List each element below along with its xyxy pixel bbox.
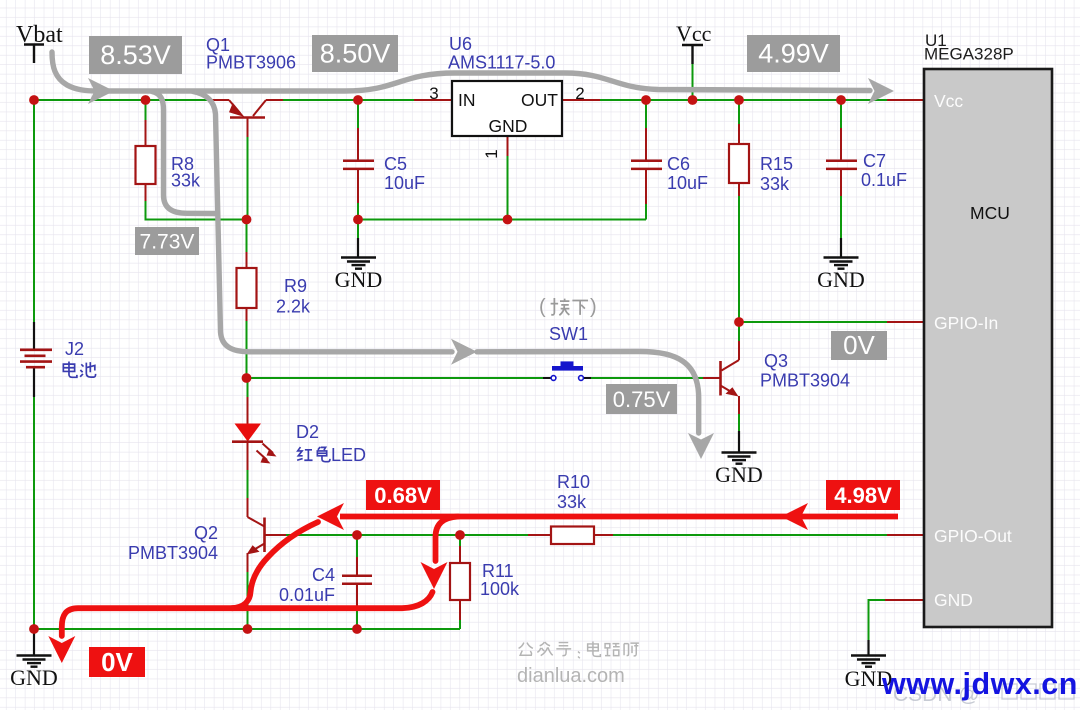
label R9 2.2k [276,276,311,317]
red arrow left 4.98V [781,503,808,530]
MCU U1 MEGA328P [885,69,1052,627]
svg-text:PMBT3904: PMBT3904 [128,543,218,563]
wire bottom GND rail [34,628,460,630]
svg-text:R10: R10 [557,472,590,492]
svg-text:7.73V: 7.73V [140,231,195,254]
svg-text:GND: GND [934,590,973,610]
svg-text:dianlua.com: dianlua.com [517,665,625,687]
red flow path main [62,517,898,637]
svg-text:GPIO-In: GPIO-In [934,313,998,333]
svg-text:GND: GND [715,462,763,487]
red arrow left 0.68V [317,503,344,530]
svg-text:Vcc: Vcc [676,21,712,46]
svg-text:SW1: SW1 [549,324,588,344]
svg-text:MCU: MCU [970,203,1010,223]
wire R9 column [246,220,248,379]
wire C6 column [645,100,647,220]
ground MCU [845,640,893,691]
wire GND rail mid [358,220,646,239]
svg-text:4.99V: 4.99V [758,39,829,69]
gray flow path main [52,52,870,433]
svg-text:R11: R11 [482,561,514,581]
wire D2 Q2 column [247,378,249,629]
hanzi hong [297,447,312,460]
svg-text:Vbat: Vbat [16,22,63,48]
wire battery column [33,100,35,629]
svg-text:GND: GND [10,665,58,690]
voltage label 4.99V [747,35,840,72]
svg-text:J2: J2 [65,339,84,359]
watermark gongzhonghao [519,642,639,659]
svg-text:3: 3 [429,84,438,103]
svg-text:www.jdwx.cn: www.jdwx.cn [881,667,1078,701]
gray arrow down Q3 [688,433,714,459]
svg-text:): ) [590,296,597,318]
voltage label 0.75V [606,384,677,414]
wire GPIO-In row [739,321,887,323]
svg-text:0V: 0V [101,647,133,677]
voltage label 8.53V [89,36,182,74]
svg-text:GND: GND [817,267,865,292]
switch SW1 [543,361,591,380]
svg-text:8.50V: 8.50V [320,39,391,69]
voltage label 8.50V [312,35,398,72]
label C7 0.1uF [861,151,907,190]
svg-text:0.75V: 0.75V [613,387,671,412]
svg-text:MEGA328P: MEGA328P [924,45,1014,64]
label C4 0.01uF [279,565,335,605]
resistor R15 [729,124,749,196]
LED D2 [232,397,277,470]
capacitor C6 [631,128,662,204]
label Q3 [760,351,850,391]
svg-text:100k: 100k [480,579,520,599]
svg-text:0.01uF: 0.01uF [279,585,335,605]
svg-text:33k: 33k [760,174,790,194]
label Q2 [128,523,218,563]
wire Q1 base column [247,137,249,220]
ground mid rail [335,238,383,292]
svg-text:2.2k: 2.2k [276,297,311,317]
label R10 33k [557,472,590,512]
regulator U6 [414,81,600,159]
svg-text:33k: 33k [557,492,587,512]
svg-text:Q2: Q2 [194,523,218,543]
gray arrow right to SW1 [451,339,477,365]
capacitor C4 [342,557,372,606]
wire Q3 collector emitter [738,322,740,431]
gray arrow right into Vcc pin [868,78,894,104]
svg-text:10uF: 10uF [667,173,708,193]
voltage label 7.73V [135,227,199,255]
resistor R11 [450,546,470,620]
gray arrow right near Vbat [88,78,114,104]
svg-text:D2: D2 [296,422,319,442]
wire R11 column [459,535,461,629]
capacitor C7 [826,128,857,196]
wire R8 column [145,100,147,220]
label U6 [448,34,555,73]
svg-text:C6: C6 [667,154,690,174]
label C6 10uF [667,154,708,193]
hanzi xia [572,301,588,315]
wire U6 GND pin column [507,156,509,220]
svg-text:C5: C5 [384,154,407,174]
transistor Q3 [703,341,739,414]
svg-text:LED: LED [331,445,366,465]
label J2 battery [63,339,95,377]
ground Q3 [715,431,763,487]
resistor R10 [528,527,613,545]
svg-text:C4: C4 [312,565,335,585]
svg-text:1: 1 [482,149,501,158]
svg-text:PMBT3904: PMBT3904 [760,371,850,391]
svg-text:U6: U6 [449,34,472,54]
label U1 [924,31,1014,64]
svg-text:0V: 0V [843,330,875,360]
wire C5 column [357,100,359,220]
voltage label 4.98V [826,480,900,510]
svg-text:GND: GND [335,267,383,292]
label R11 100k [480,561,520,599]
capacitor C5 [343,128,374,203]
junction dots mid rails [242,215,744,383]
svg-text:10uF: 10uF [384,173,425,193]
Vbat terminal [24,45,44,64]
hanzi chi [80,362,95,377]
junction dots bottom [29,530,465,634]
voltage label 0V gray [831,330,887,360]
svg-text:GPIO-Out: GPIO-Out [934,526,1012,546]
ground C7 [817,238,865,292]
hanzi dian [63,362,77,378]
svg-text:33k: 33k [171,171,201,191]
wire R15 column [738,100,740,322]
wire top Vbat rail [34,99,887,101]
wire MCU GND pin [869,600,886,640]
voltage label 0V red [89,647,145,677]
junction dots top rail [29,95,846,105]
red arrow down R11 [421,562,448,589]
svg-text:(: ( [539,296,546,318]
svg-text:R9: R9 [284,276,307,296]
svg-text:Vcc: Vcc [934,91,963,111]
svg-text:0.1uF: 0.1uF [861,170,907,190]
svg-text:AMS1117-5.0: AMS1117-5.0 [448,53,555,73]
voltage label 0.68V [366,480,440,510]
wire C4 column [356,535,358,629]
hanzi se [317,447,330,462]
Vcc terminal [682,45,703,64]
label press-down note [539,296,597,318]
svg-text:GND: GND [489,116,528,136]
svg-text:OUT: OUT [521,90,558,110]
label Q1 [206,35,296,73]
wire GPIO-Out row [286,534,887,536]
label D2 red LED [296,422,366,465]
transistor Q1 [210,100,283,137]
hanzi an [551,298,570,315]
svg-text:R15: R15 [760,154,793,174]
svg-text:C7: C7 [863,151,886,171]
svg-text:IN: IN [458,90,476,110]
wire Vcc stub [692,64,694,100]
ground bottom-left [10,629,58,690]
wire C7 column [840,100,842,238]
resistor R8 [136,120,156,201]
wire SW1 row [247,377,704,379]
svg-text:4.98V: 4.98V [834,483,892,508]
label R15 33k [760,154,793,194]
label R8 33k [171,154,201,191]
watermark CSDN faint [893,683,980,706]
svg-text:Q3: Q3 [764,351,788,371]
svg-text:PMBT3906: PMBT3906 [206,53,296,73]
battery J2 [20,322,52,397]
label C5 10uF [384,154,425,193]
red arrow down 0V GND [48,636,75,663]
wire node 7.73V rail [145,219,247,221]
transistor Q2 [247,498,287,572]
svg-text:0.68V: 0.68V [374,483,432,508]
svg-text:2: 2 [575,84,584,103]
svg-text:8.53V: 8.53V [100,40,171,70]
resistor R9 [237,252,257,321]
